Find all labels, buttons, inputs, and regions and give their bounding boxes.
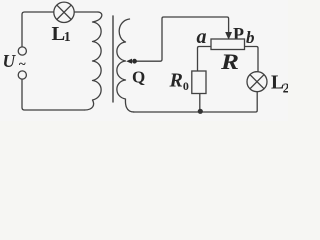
svg-text:a: a bbox=[197, 26, 207, 48]
wire a-side down to R0 bbox=[198, 47, 212, 72]
junction dot bottom rail bbox=[198, 109, 203, 114]
svg-text:U: U bbox=[3, 51, 17, 71]
wire tap Q to top to slider bbox=[135, 17, 229, 61]
wire lamp L1 to coil bbox=[74, 11, 98, 13]
transformer primary coil bbox=[85, 12, 102, 110]
svg-text:R: R bbox=[220, 49, 239, 74]
AC source U terminals bbox=[18, 47, 26, 79]
svg-text:b: b bbox=[246, 28, 255, 47]
tap arrow Q bbox=[126, 59, 132, 64]
lamp L2 bbox=[247, 72, 267, 92]
resistor R0 box bbox=[192, 71, 206, 94]
lamp L1 bbox=[54, 2, 74, 22]
potentiometer R box bbox=[211, 39, 245, 50]
wire R0 bottom to rail bbox=[199, 94, 201, 112]
wire primary left+top bbox=[22, 12, 54, 47]
svg-text:~: ~ bbox=[19, 56, 26, 71]
transformer core bbox=[112, 16, 114, 102]
svg-text:Q: Q bbox=[132, 67, 145, 86]
wire b-side down to L2 bbox=[245, 47, 259, 72]
transformer secondary coil bbox=[117, 19, 134, 112]
wire secondary bottom rail to L2 bbox=[133, 90, 257, 112]
slider arrowhead P bbox=[225, 32, 232, 40]
wire primary bottom+left bbox=[22, 78, 85, 111]
junction dot at tap bbox=[132, 59, 137, 64]
